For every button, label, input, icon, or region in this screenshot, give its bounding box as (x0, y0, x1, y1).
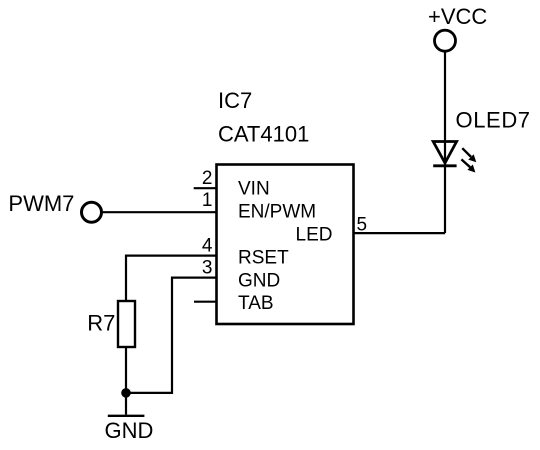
svg-text:GND: GND (105, 418, 154, 443)
svg-text:2: 2 (202, 168, 213, 189)
svg-text:PWM7: PWM7 (8, 191, 74, 216)
junction dot (121, 388, 131, 398)
svg-text:GND: GND (238, 270, 280, 291)
svg-text:RSET: RSET (238, 247, 289, 268)
svg-text:R7: R7 (87, 311, 115, 336)
svg-text:1: 1 (202, 190, 213, 211)
LED emission arrow 1 (462, 148, 476, 162)
wire PWM7 to pin 1 (103, 211, 216, 213)
LED emission arrow 2 (461, 159, 475, 172)
svg-text:VIN: VIN (238, 179, 270, 200)
svg-text:IC7: IC7 (218, 88, 252, 113)
LED OLED7 cathode bar (433, 164, 456, 167)
svg-text:OLED7: OLED7 (456, 108, 531, 133)
wire pin 4 to R7 top (126, 256, 217, 301)
resistor R7 body (118, 301, 135, 347)
svg-text:3: 3 (202, 258, 213, 279)
pin stub 2 (194, 187, 216, 189)
wire junction to ground (125, 393, 127, 415)
svg-text:TAB: TAB (238, 293, 274, 314)
pin stub TAB (194, 301, 216, 303)
op-amp/IC IC7 CAT4101 body (217, 165, 354, 325)
ground bar (108, 415, 145, 417)
svg-text:4: 4 (202, 236, 213, 257)
wire pin 5 (LED) to diode net (354, 232, 445, 234)
LED OLED7 triangle (anode) (433, 142, 456, 164)
svg-text:LED: LED (296, 225, 333, 246)
svg-text:+VCC: +VCC (428, 4, 487, 29)
svg-text:CAT4101: CAT4101 (218, 122, 309, 147)
wire R7 bottom to junction (125, 347, 127, 393)
wire pin 3 to ground junction (126, 278, 217, 393)
terminal +VCC (435, 30, 456, 51)
svg-text:EN/PWM: EN/PWM (238, 202, 316, 223)
wire VCC to LED and down to pin5 net (444, 53, 446, 234)
terminal PWM7 (82, 202, 102, 222)
